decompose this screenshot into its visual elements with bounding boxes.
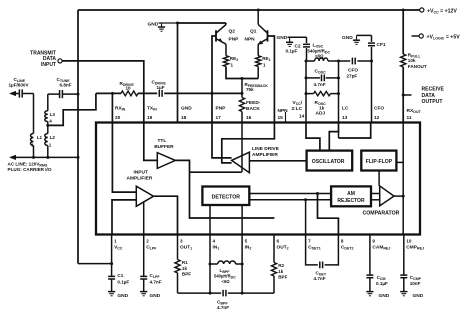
- wire tank left rail: [305, 61, 307, 123]
- svg-text:OSCILLATOR: OSCILLATOR: [312, 159, 345, 165]
- node L1 line bottom: [32, 156, 35, 159]
- ground pin2: [140, 291, 147, 293]
- svg-text:4.7nF: 4.7nF: [217, 305, 229, 310]
- svg-text:AM: AM: [347, 191, 355, 197]
- svg-text:BUFFER: BUFFER: [154, 144, 174, 150]
- svg-text:18: 18: [181, 115, 187, 121]
- node line rail: [77, 156, 80, 159]
- node top bus / Q1 collector: [257, 9, 260, 12]
- wire TTL buffer output: [175, 160, 274, 218]
- svg-text:GND: GND: [181, 106, 192, 112]
- svg-text:0.1µF: 0.1µF: [286, 49, 298, 54]
- wire L1 bottom: [33, 146, 35, 158]
- node L2 line bottom: [46, 156, 49, 159]
- wire pin 18 vertical: [177, 23, 179, 123]
- wire pin2 down: [143, 235, 145, 277]
- node feedback emitters: [241, 77, 244, 80]
- svg-text:1: 1: [231, 62, 234, 67]
- wire detector to pin 5: [241, 205, 243, 235]
- wire R1 to BPF bus: [177, 273, 179, 293]
- wire pin4 down: [209, 235, 211, 294]
- node tank right top: [337, 60, 340, 63]
- svg-text:GND: GND: [148, 22, 159, 28]
- node feedback / drive bus: [241, 92, 244, 95]
- svg-text:CFO: CFO: [374, 106, 384, 112]
- wire LC to CFO cap: [339, 60, 351, 62]
- capacitor C_LPF: [140, 275, 147, 277]
- svg-text:COSC: COSC: [315, 68, 327, 74]
- wire R2 to BPF bus: [273, 276, 275, 293]
- svg-text:OUT1: OUT1: [180, 245, 192, 251]
- svg-text:GND: GND: [150, 293, 161, 299]
- node pin1 rail: [110, 262, 113, 265]
- wire pin12 internal: [339, 123, 371, 139]
- svg-text:CLPF: CLPF: [150, 273, 161, 279]
- pin 20 RX_IN: [111, 93, 113, 122]
- wire pin17 to LDA output: [212, 123, 232, 158]
- node gnd wire / pin18: [176, 22, 179, 25]
- svg-text:VCC: VCC: [114, 245, 123, 251]
- svg-text:OUTPUT: OUTPUT: [422, 99, 444, 105]
- capacitor C_DRIVE: [158, 90, 160, 97]
- svg-text:1k: 1k: [182, 266, 188, 271]
- wire Cline to L1: [33, 94, 35, 131]
- svg-text:BACK: BACK: [246, 106, 260, 112]
- resistor R2: [271, 263, 276, 277]
- capacitor C_CM: [366, 274, 373, 276]
- node top bus / Rpull: [402, 9, 405, 12]
- inductor L_BPF: [210, 263, 218, 265]
- svg-text:11: 11: [407, 115, 412, 121]
- svg-text:0.1µF: 0.1µF: [376, 281, 388, 286]
- svg-text:9: 9: [372, 239, 375, 244]
- svg-text:RXIN: RXIN: [115, 106, 126, 112]
- ground pin1: [108, 291, 115, 293]
- ground GND near CF1: [357, 34, 372, 36]
- svg-text:NPN: NPN: [278, 108, 289, 114]
- svg-text:6: 6: [277, 239, 280, 244]
- resistor FEEDBACK 16 internal: [239, 98, 244, 112]
- ground pin9: [366, 291, 373, 293]
- wire RX_IN to input amplifier: [112, 123, 135, 193]
- svg-text:NPN: NPN: [245, 37, 256, 43]
- wire pin9 down: [369, 235, 371, 276]
- svg-text:15: 15: [278, 115, 284, 121]
- transistor Q1 NPN: [267, 30, 269, 41]
- svg-text:L2: L2: [50, 135, 56, 140]
- wire pin3 down: [177, 235, 179, 260]
- svg-text:4.7nF: 4.7nF: [150, 279, 162, 284]
- svg-text:<6Ω: <6Ω: [222, 279, 231, 284]
- wire amp lower input to pin 1: [112, 200, 136, 235]
- svg-text:IN2: IN2: [245, 245, 252, 251]
- svg-text:5: 5: [245, 239, 248, 244]
- wire flipflop to rx_out rail: [396, 161, 403, 163]
- svg-text:ROSC: ROSC: [315, 100, 327, 106]
- wire pin11 internal: [402, 123, 404, 197]
- svg-text:19: 19: [147, 115, 153, 121]
- wire feedback node to resistor: [241, 79, 243, 98]
- svg-text:COMPARATOR: COMPARATOR: [363, 210, 400, 216]
- wire detector out lower: [249, 199, 331, 201]
- node Ctune rail: [77, 93, 80, 96]
- wire Q2 emitter down: [225, 44, 227, 56]
- resistor RE2: [223, 56, 228, 67]
- svg-text:2:LC: 2:LC: [292, 106, 303, 112]
- wire pin7 down: [306, 235, 318, 265]
- svg-text:7: 7: [308, 239, 311, 244]
- node BPF bus pin5: [241, 292, 244, 295]
- svg-text:L3: L3: [50, 112, 56, 117]
- svg-text:1µF/600V: 1µF/600V: [9, 82, 30, 87]
- pin 14 tick: [285, 112, 287, 123]
- svg-text:10k: 10k: [408, 58, 416, 63]
- svg-text:GND: GND: [117, 293, 128, 299]
- node CFO CF1 junction: [370, 60, 373, 63]
- block AM rejector: [331, 186, 371, 206]
- svg-text:27pF: 27pF: [347, 73, 358, 78]
- svg-text:IN1: IN1: [213, 245, 220, 251]
- svg-text:BPF: BPF: [182, 272, 191, 277]
- resistor R_DRIVE: [121, 91, 138, 96]
- svg-text:RXOUT: RXOUT: [407, 108, 422, 114]
- wire L3 top: [47, 94, 49, 111]
- resistor R_PULL: [401, 54, 406, 67]
- svg-text:GND: GND: [379, 293, 390, 299]
- wire drive bus left: [96, 92, 121, 94]
- svg-text:INPUT: INPUT: [134, 170, 148, 176]
- block oscillator: [307, 151, 353, 171]
- svg-text:PLUG: CARRIER I/O: PLUG: CARRIER I/O: [8, 167, 52, 172]
- wire detector out upper: [249, 193, 331, 195]
- inductor L1: [33, 131, 35, 134]
- block flip-flop: [361, 151, 396, 171]
- svg-text:+VLOGIC = +5V: +VLOGIC = +5V: [427, 34, 461, 40]
- wire gnd to Q2 collector: [178, 22, 227, 24]
- inductor L2: [47, 131, 49, 134]
- svg-text:CDET1: CDET1: [308, 245, 321, 251]
- svg-text:LC: LC: [342, 106, 349, 112]
- capacitor C_DET: [319, 262, 321, 269]
- svg-text:CAMREJ: CAMREJ: [372, 245, 390, 251]
- svg-text:DETECTOR: DETECTOR: [212, 194, 241, 200]
- wire rail to pin1: [78, 263, 112, 265]
- node comparator rx_out: [402, 195, 405, 198]
- svg-text:PNP: PNP: [216, 106, 227, 112]
- wire amp output to pin 3: [154, 196, 178, 234]
- wire junction to pin 12: [371, 61, 373, 123]
- wire Q1 emitter down: [257, 44, 259, 56]
- terminal TRANSMIT DATA INPUT: [58, 59, 62, 63]
- block detector: [202, 187, 249, 206]
- svg-text:FANOUT: FANOUT: [408, 64, 427, 69]
- ground pin10: [400, 291, 407, 293]
- resistor RE1: [256, 56, 261, 67]
- wire tank right rail: [338, 61, 340, 123]
- wire pin15 to LDA output: [222, 123, 275, 163]
- svg-text:REJECTOR: REJECTOR: [337, 198, 365, 204]
- terminal +Vcc: [420, 8, 424, 12]
- svg-text:CDET2: CDET2: [341, 245, 354, 251]
- svg-text:DATA: DATA: [422, 93, 436, 99]
- svg-text:Q2: Q2: [229, 29, 236, 35]
- svg-text:TTL: TTL: [158, 138, 167, 144]
- svg-text:C1: C1: [117, 273, 123, 278]
- svg-text:RE1: RE1: [262, 56, 270, 62]
- svg-text:GND: GND: [413, 293, 424, 299]
- svg-text:4.7nF: 4.7nF: [314, 276, 326, 281]
- svg-text:1: 1: [263, 62, 266, 67]
- wire AM rejector to comparator upper: [371, 193, 380, 195]
- wire tank right to oscillator: [329, 123, 338, 151]
- svg-text:14: 14: [299, 114, 305, 120]
- svg-text:+VCC = +12V: +VCC = +12V: [427, 8, 457, 14]
- svg-text:10: 10: [126, 86, 132, 91]
- svg-text:CCM: CCM: [377, 275, 386, 281]
- svg-text:17: 17: [216, 115, 222, 121]
- svg-text:3: 3: [180, 239, 183, 244]
- svg-text:Q1: Q1: [250, 29, 257, 35]
- wire transformer tap to RXin: [48, 93, 96, 125]
- svg-text:0.1µF: 0.1µF: [117, 279, 129, 284]
- node pin17 bus: [211, 92, 214, 95]
- node receive data output: [402, 94, 405, 97]
- wire transmit data to TX_IN: [62, 61, 144, 123]
- svg-text:R2: R2: [278, 263, 284, 268]
- capacitor CF1: [371, 47, 373, 61]
- svg-text:L1: L1: [37, 135, 43, 140]
- wire Rpull to pin 11: [402, 67, 404, 123]
- wire TTL branch to feedback line: [190, 171, 242, 173]
- svg-text:BPF: BPF: [278, 275, 287, 280]
- svg-text:16: 16: [246, 115, 252, 121]
- svg-text:75k: 75k: [246, 87, 254, 92]
- svg-text:4.7nF: 4.7nF: [314, 82, 326, 87]
- node tank left top: [305, 60, 308, 63]
- capacitor C_BPF: [222, 290, 224, 297]
- transistor Q2 PNP: [215, 30, 217, 41]
- wire bus middle: [138, 92, 157, 94]
- svg-text:RECEIVE: RECEIVE: [422, 86, 445, 92]
- svg-text:OUT2: OUT2: [277, 245, 289, 251]
- svg-text:TXIN: TXIN: [147, 106, 157, 112]
- wire TX_IN to TTL buffer: [144, 123, 157, 161]
- wire BPF bus left: [178, 292, 222, 294]
- svg-text:CCMP: CCMP: [410, 275, 422, 281]
- svg-text:CF1: CF1: [377, 42, 386, 48]
- node upper to pin 8: [316, 192, 319, 195]
- wire pin 2 to amp underside: [143, 202, 145, 235]
- svg-text:AMPLIFIER: AMPLIFIER: [252, 152, 278, 158]
- svg-text:AMPLIFIER: AMPLIFIER: [127, 176, 153, 182]
- svg-text:ADJ: ADJ: [316, 111, 326, 117]
- svg-text:1: 1: [49, 142, 52, 147]
- wire rx_out to pin 10: [402, 196, 404, 234]
- wire L2 bottom: [47, 146, 49, 158]
- capacitor C_CMP: [400, 274, 407, 276]
- svg-text:20: 20: [115, 115, 121, 121]
- wire AM rejector to comparator lower: [371, 199, 380, 201]
- svg-text:RE2: RE2: [230, 56, 238, 62]
- node lower to pin 7: [304, 198, 307, 201]
- resistor R1: [175, 260, 180, 273]
- svg-text:FLIP-FLOP: FLIP-FLOP: [366, 159, 393, 165]
- svg-text:4: 4: [213, 239, 216, 244]
- wire left Vcc rail: [77, 10, 79, 264]
- svg-text:GND: GND: [277, 35, 288, 41]
- wire pin10 down: [403, 235, 405, 276]
- wire AC line bottom: [9, 155, 16, 160]
- inductor L3: [45, 111, 48, 122]
- wire RE2 to feedback node: [226, 67, 258, 79]
- svg-text:GND: GND: [342, 35, 353, 41]
- svg-text:VCC/: VCC/: [293, 100, 303, 106]
- svg-text:CLPF: CLPF: [146, 245, 157, 251]
- svg-text:12: 12: [374, 115, 380, 121]
- wire RE1 bottom: [257, 67, 259, 79]
- wire Q2 base to pin 17: [212, 36, 216, 123]
- terminal +Vlogic: [412, 35, 420, 37]
- wire pin1 down: [111, 235, 113, 277]
- op-amp comparator: [380, 186, 394, 206]
- svg-text:13: 13: [342, 115, 348, 121]
- wire comparator output: [394, 195, 403, 197]
- svg-text:1k: 1k: [278, 269, 284, 274]
- svg-text:R1: R1: [182, 260, 188, 265]
- svg-text:LINE DRIVE: LINE DRIVE: [252, 146, 280, 152]
- svg-text:8: 8: [341, 239, 344, 244]
- node BPF bus pin4: [209, 292, 212, 295]
- capacitor CFO 27pF: [351, 58, 353, 65]
- svg-text:10: 10: [406, 239, 412, 244]
- svg-text:INPUT: INPUT: [41, 62, 56, 68]
- wire tank left to oscillator: [306, 123, 320, 151]
- resistor R_OSC: [314, 91, 331, 95]
- svg-text:FEED-: FEED-: [246, 100, 261, 106]
- wire flipflop output down: [378, 171, 380, 186]
- svg-text:4: 4: [49, 119, 52, 124]
- wire pin16 internal vertical: [241, 123, 243, 173]
- wire LDA input to oscillator: [249, 160, 306, 162]
- wire bus right to feedback: [164, 92, 242, 94]
- svg-text:10nF: 10nF: [410, 281, 421, 286]
- IC block outline U1: [96, 123, 420, 235]
- wire +Vcc top bus: [78, 9, 420, 11]
- svg-text:PNP: PNP: [229, 37, 240, 43]
- capacitor C1: [108, 275, 115, 277]
- wire pin5 down: [241, 235, 243, 294]
- svg-text:6.8nF: 6.8nF: [60, 82, 72, 87]
- svg-text:1: 1: [114, 239, 117, 244]
- capacitor C2: [306, 37, 308, 43]
- wire Q1 base to pin 15: [268, 36, 275, 123]
- node RXin junction: [111, 92, 114, 95]
- svg-text:1µF: 1µF: [157, 85, 165, 90]
- node L3 L2 tap: [47, 123, 49, 130]
- svg-text:2: 2: [146, 239, 149, 244]
- svg-text:CMPREJ: CMPREJ: [406, 245, 424, 251]
- wire detector to pin 4: [209, 205, 211, 235]
- wire Vcc to Rpull: [402, 10, 404, 54]
- wire pin6 down: [273, 235, 275, 263]
